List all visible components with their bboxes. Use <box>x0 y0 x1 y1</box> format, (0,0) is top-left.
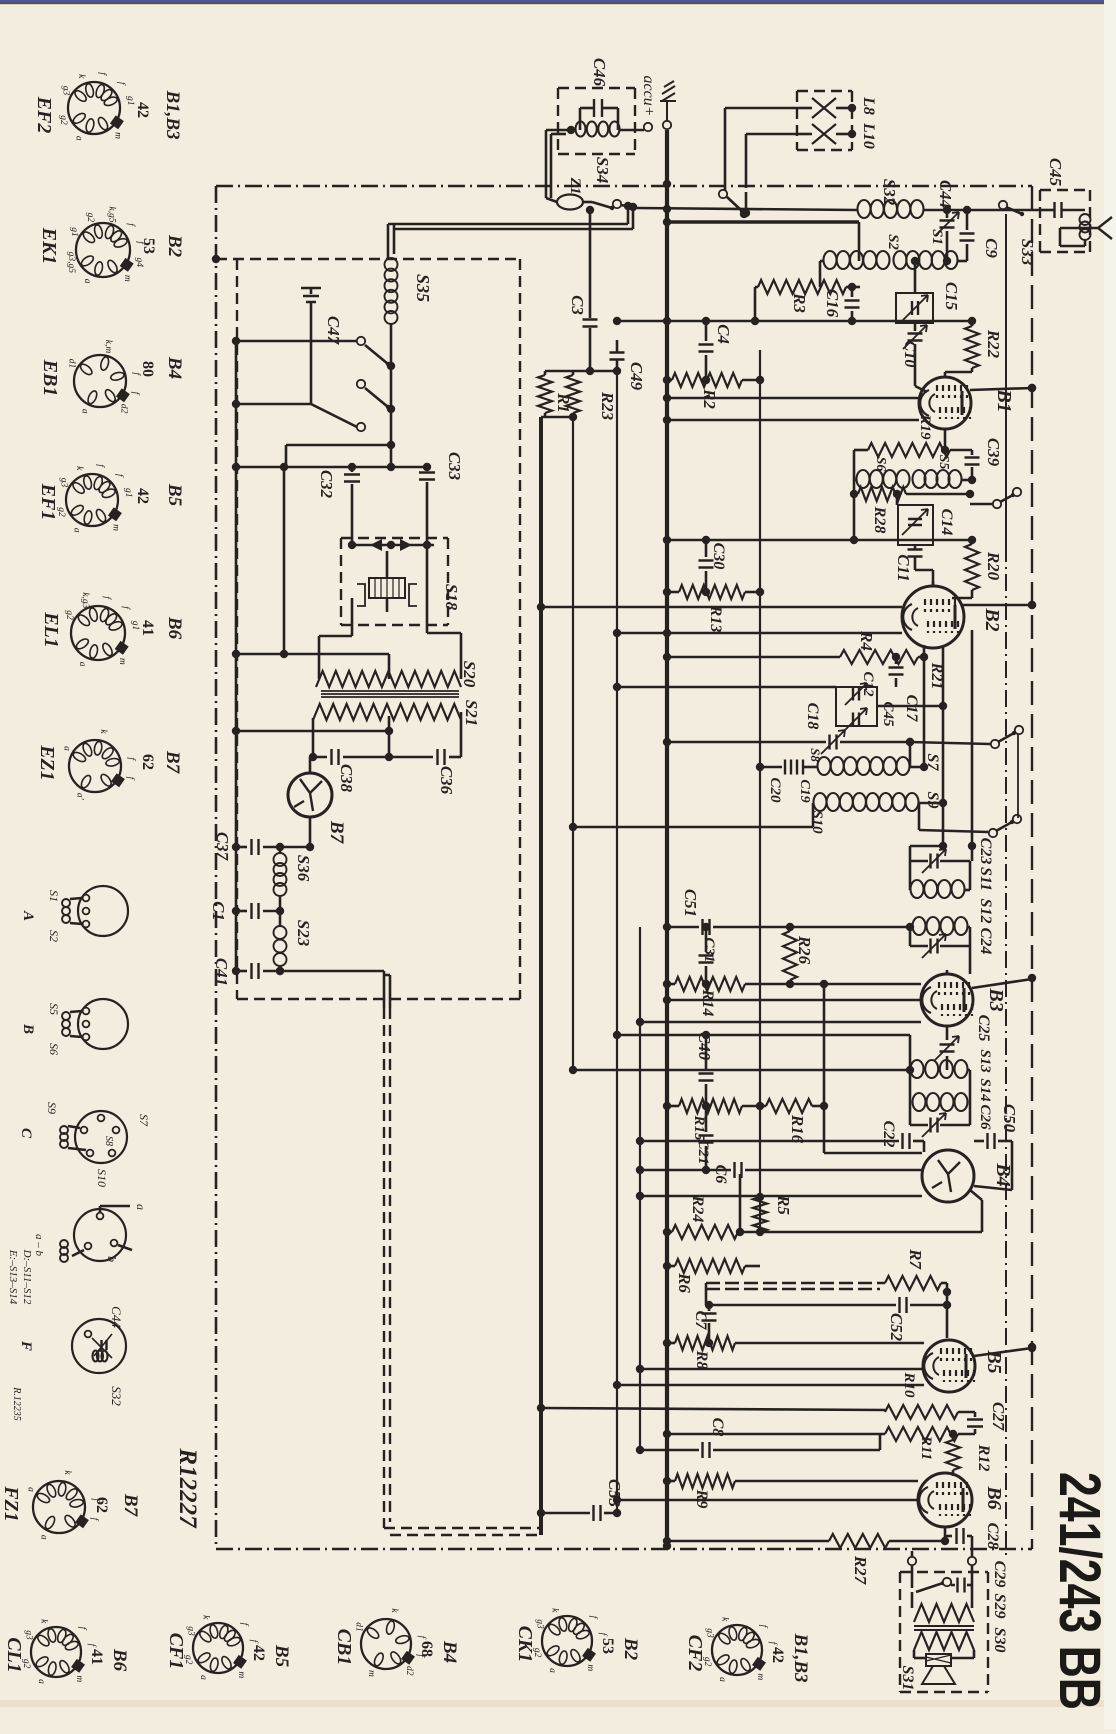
wire L10 to main wire <box>745 192 748 212</box>
svg-text:EF2: EF2 <box>33 96 55 134</box>
svg-text:S8: S8 <box>808 748 823 762</box>
svg-text:m: m <box>366 1670 376 1677</box>
svg-text:R22: R22 <box>984 329 1003 359</box>
wire HT feed top <box>667 220 859 223</box>
svg-text:C23: C23 <box>977 838 994 865</box>
svg-text:L8: L8 <box>860 96 877 115</box>
wire osc box to cathode <box>877 705 943 708</box>
svg-text:C15: C15 <box>942 282 961 311</box>
svg-text:S7: S7 <box>137 1114 151 1127</box>
resistor R28 <box>854 493 858 496</box>
svg-text:C40: C40 <box>695 1032 714 1061</box>
svg-text:S30: S30 <box>991 1628 1008 1653</box>
svg-text:EL1: EL1 <box>40 611 62 648</box>
transformer secondary <box>914 1632 974 1650</box>
wire main earth bus <box>539 417 543 1535</box>
svg-text:a: a <box>134 1204 148 1210</box>
tube socket FZ1 <box>33 1481 85 1533</box>
svg-text:g2: g2 <box>85 213 95 223</box>
wire bus x640 <box>639 927 641 1450</box>
svg-text:42: 42 <box>250 1645 267 1661</box>
svg-text:53: 53 <box>140 238 157 254</box>
svg-text:S21: S21 <box>462 700 481 726</box>
svg-text:S14: S14 <box>977 1078 993 1102</box>
svg-text:R5: R5 <box>774 1194 793 1215</box>
svg-text:B7: B7 <box>162 750 183 775</box>
trimmer C14 box <box>898 505 933 545</box>
svg-text:a: a <box>26 1487 36 1492</box>
trimmer C26 <box>909 1103 912 1125</box>
connector B <box>78 999 128 1049</box>
lamp L8 <box>812 98 836 118</box>
svg-text:R19: R19 <box>917 413 933 440</box>
svg-text:S6: S6 <box>873 457 888 472</box>
capacitor C49 <box>610 353 625 360</box>
svg-text:C37: C37 <box>213 832 232 862</box>
svg-text:R7: R7 <box>906 1248 925 1270</box>
svg-text:m: m <box>111 524 121 531</box>
connector F <box>72 1319 126 1373</box>
wire x824 link <box>823 984 826 1153</box>
transformer S31 primary <box>911 1592 914 1608</box>
coil S12 <box>909 927 912 946</box>
tube B2 <box>902 586 964 648</box>
trimmer C23 <box>910 860 928 863</box>
svg-text:41: 41 <box>88 1649 105 1665</box>
trimmer C24 <box>910 945 928 948</box>
svg-text:C31: C31 <box>701 937 717 962</box>
coil S10 <box>814 793 827 811</box>
svg-text:C45: C45 <box>880 701 896 727</box>
svg-text:S23: S23 <box>294 920 313 947</box>
svg-text:B2: B2 <box>981 607 1003 631</box>
svg-text:S36: S36 <box>294 855 313 882</box>
svg-text:68: 68 <box>418 1641 435 1657</box>
resistor R20 <box>965 544 979 590</box>
coil S36 <box>279 847 282 853</box>
svg-text:B5: B5 <box>164 483 185 507</box>
capacitor C37 <box>236 846 247 849</box>
wire switch bottom <box>286 444 391 447</box>
capacitor C31 <box>705 927 708 952</box>
svg-text:L10: L10 <box>860 122 877 149</box>
svg-text:C32: C32 <box>317 470 336 499</box>
wire B4 row <box>640 1195 922 1198</box>
svg-text:g2: g2 <box>64 610 74 620</box>
wire R1 R23 top <box>545 370 617 373</box>
wire L10 feed <box>746 133 800 136</box>
svg-text:a – b: a – b <box>33 1234 45 1257</box>
svg-text:C21: C21 <box>695 1139 711 1164</box>
wire S21 tap to bus <box>236 730 389 733</box>
svg-text:S12: S12 <box>977 899 994 924</box>
svg-text:C20: C20 <box>767 777 783 803</box>
svg-text:62: 62 <box>139 754 156 770</box>
resistor R19 <box>944 429 947 450</box>
svg-text:C12: C12 <box>860 671 876 697</box>
svg-text:S31: S31 <box>899 1666 916 1691</box>
tube socket CF2 <box>712 1625 762 1675</box>
connector D <box>74 1209 126 1261</box>
svg-text:S9: S9 <box>45 1102 59 1114</box>
wire B1 plate to rail <box>970 388 1032 390</box>
svg-text:m: m <box>122 275 132 282</box>
coil S11 <box>911 880 924 898</box>
capacitor C20 <box>760 766 782 769</box>
svg-text:C: C <box>18 1128 34 1139</box>
wire B3 plate to rail <box>972 979 1032 988</box>
capacitor C3 <box>589 210 592 318</box>
wire bus x236 <box>235 341 238 971</box>
wire shield drop <box>383 971 386 1008</box>
svg-text:m: m <box>236 1671 246 1678</box>
resistor R2 <box>667 379 672 382</box>
svg-text:C17: C17 <box>903 695 920 723</box>
svg-text:a: a <box>72 528 82 533</box>
svg-text:R23: R23 <box>598 391 617 421</box>
svg-text:C11: C11 <box>894 554 913 581</box>
switch contact osc range 1 <box>910 742 990 744</box>
coil S13 <box>911 1060 924 1078</box>
svg-text:B5: B5 <box>271 1644 292 1668</box>
svg-text:m: m <box>74 1675 84 1682</box>
capacitor C21 <box>705 1106 708 1132</box>
capacitor C11 <box>914 545 917 549</box>
wire B2 cathode down <box>923 645 926 767</box>
svg-text:R6: R6 <box>675 1272 694 1293</box>
wire AVC row <box>573 1069 910 1072</box>
capacitor C7 <box>708 1305 711 1311</box>
svg-text:S20: S20 <box>460 661 479 688</box>
tube socket EL1 <box>71 606 125 660</box>
svg-text:C19: C19 <box>797 779 812 802</box>
resistor R1 <box>538 375 552 413</box>
svg-text:CL1: CL1 <box>3 1637 25 1673</box>
svg-text:a: a <box>62 746 72 751</box>
capacitor C52 <box>705 1283 708 1305</box>
svg-text:S35: S35 <box>413 274 433 302</box>
trimmer C12 <box>836 687 877 726</box>
capacitor C22 <box>640 1140 899 1143</box>
wire B5 plate to rail <box>974 1348 1032 1356</box>
svg-text:B1,B3: B1,B3 <box>790 1632 811 1682</box>
svg-text:EF1: EF1 <box>37 483 59 521</box>
svg-text:C30: C30 <box>710 543 727 570</box>
resistor R23 <box>566 375 580 413</box>
svg-text:42: 42 <box>769 1647 786 1663</box>
svg-text:R20: R20 <box>984 551 1003 581</box>
resistor R14 <box>667 983 675 986</box>
svg-text:R28: R28 <box>871 506 888 534</box>
capacitor C46 <box>594 99 602 117</box>
svg-text:42: 42 <box>134 102 151 118</box>
capacitor C28 <box>945 1535 952 1538</box>
vibrator reed <box>386 551 389 578</box>
svg-text:C36: C36 <box>437 766 456 795</box>
capacitor C36 <box>438 749 445 765</box>
svg-text:41: 41 <box>139 620 156 636</box>
svg-text:a: a <box>82 279 92 284</box>
trimmer C44 <box>946 210 949 218</box>
svg-text:C1: C1 <box>209 901 228 921</box>
terminal accu bus top <box>663 121 671 129</box>
svg-text:S10: S10 <box>809 810 825 834</box>
svg-text:C9: C9 <box>982 238 1001 258</box>
svg-text:C44: C44 <box>109 1306 124 1328</box>
svg-text:80: 80 <box>139 361 156 377</box>
svg-text:D:–S11–S12: D:–S11–S12 <box>21 1249 33 1305</box>
svg-text:m: m <box>755 1673 765 1680</box>
svg-text:k,g3: k,g3 <box>80 592 90 608</box>
transformer S20 S21 core <box>321 690 459 692</box>
svg-text:S18: S18 <box>442 584 461 611</box>
svg-text:R9: R9 <box>693 1489 710 1509</box>
wire B5 rows <box>640 1368 924 1371</box>
svg-text:S1: S1 <box>47 890 61 902</box>
svg-text:R10: R10 <box>901 1371 917 1398</box>
svg-text:CB1: CB1 <box>333 1629 355 1666</box>
svg-text:C50: C50 <box>1000 1104 1019 1133</box>
svg-text:B4: B4 <box>164 356 185 379</box>
svg-text:R26: R26 <box>795 935 814 965</box>
switch contact antenna <box>999 201 1007 209</box>
speaker S31 <box>926 1654 951 1666</box>
capacitor C46 box <box>558 87 635 89</box>
inductor L8 L10 dashed box <box>797 90 852 92</box>
svg-text:C28: C28 <box>984 1523 1001 1550</box>
svg-text:a: a <box>80 409 90 414</box>
capacitor C8 <box>640 1449 699 1452</box>
svg-text:C26: C26 <box>977 1104 993 1130</box>
tube socket CL1 <box>31 1627 81 1677</box>
svg-text:S5: S5 <box>936 455 951 470</box>
lamp Z1 <box>557 195 583 210</box>
coil S14 <box>909 1070 912 1103</box>
svg-text:B7: B7 <box>326 820 347 845</box>
coil S6 <box>857 470 870 488</box>
wire accu battery bus <box>665 130 669 1546</box>
tube socket EB1 <box>74 355 126 407</box>
svg-text:C49: C49 <box>627 362 646 391</box>
antenna arrow <box>1060 217 1112 239</box>
tube B5 <box>923 1340 975 1392</box>
svg-text:C41: C41 <box>212 958 231 986</box>
capacitor C33 <box>426 467 429 470</box>
capacitor C29 <box>951 1584 955 1587</box>
svg-text:g4: g4 <box>134 258 144 268</box>
wire det row <box>541 1408 885 1410</box>
switch contact output 1 <box>908 1557 916 1565</box>
wire C6 to R24 row <box>739 1174 742 1232</box>
svg-text:C18: C18 <box>804 703 821 730</box>
svg-text:B: B <box>20 1023 36 1034</box>
svg-text:B3: B3 <box>985 987 1007 1011</box>
svg-text:C46: C46 <box>590 58 609 87</box>
svg-text:F: F <box>18 1340 34 1351</box>
wire bus x617 <box>616 371 618 1513</box>
wire S20 right feed <box>426 482 429 633</box>
terminal accu+ <box>644 123 652 131</box>
svg-text:S33: S33 <box>1018 239 1037 266</box>
svg-text:R24: R24 <box>689 1195 706 1223</box>
switch contact osc range 2 <box>919 830 988 832</box>
svg-text:R11: R11 <box>918 1435 934 1460</box>
resistor R13 <box>667 591 679 594</box>
svg-text:R16: R16 <box>788 1114 807 1144</box>
svg-text:R15: R15 <box>691 1114 707 1141</box>
svg-text:EK1: EK1 <box>38 227 60 265</box>
wire S35 drop <box>390 324 393 445</box>
tube socket EF2 <box>68 82 120 134</box>
svg-text:a: a <box>547 1668 557 1673</box>
svg-text:B6: B6 <box>983 1485 1005 1509</box>
svg-text:R12227: R12227 <box>174 1447 201 1529</box>
wire to vibrator caps <box>286 466 427 469</box>
svg-text:CF1: CF1 <box>165 1633 187 1670</box>
wire B1 grid rows <box>667 397 919 400</box>
svg-text:C38: C38 <box>337 764 356 793</box>
svg-text:C3: C3 <box>568 295 587 315</box>
svg-text:C39: C39 <box>984 438 1003 467</box>
resistor R17 <box>885 1405 958 1419</box>
capacitor C9 <box>966 210 969 230</box>
svg-text:m: m <box>117 658 127 665</box>
coil S33 <box>1080 214 1091 225</box>
capacitor C27 <box>974 1412 977 1417</box>
svg-text:R3: R3 <box>790 292 809 313</box>
svg-text:accu+: accu+ <box>640 76 657 117</box>
coil S1 <box>894 251 907 269</box>
tube B1 <box>919 377 971 429</box>
svg-text:C25: C25 <box>975 1015 992 1042</box>
transformer S20 winding <box>316 671 461 687</box>
resistor R16 <box>766 1099 812 1113</box>
tube socket CF1 <box>193 1623 243 1673</box>
wire B6 cathode <box>944 1527 947 1541</box>
svg-text:241/243 BB: 241/243 BB <box>1047 1472 1112 1710</box>
connector C <box>75 1111 127 1163</box>
svg-text:d2: d2 <box>119 404 129 414</box>
capacitor C53 <box>541 1512 590 1515</box>
transformer S21 winding <box>313 704 461 720</box>
wire screen row <box>667 539 972 542</box>
switch contact S35a <box>236 340 357 343</box>
svg-text:B5: B5 <box>983 1349 1005 1373</box>
svg-text:S2: S2 <box>885 234 901 250</box>
resistor R3 <box>755 286 758 289</box>
resistor R8 <box>667 1342 675 1345</box>
wire bus x573 <box>572 417 574 1070</box>
tube B3 <box>921 974 973 1026</box>
svg-text:C51: C51 <box>681 889 700 917</box>
svg-text:g1: g1 <box>69 227 79 237</box>
capacitor C4 <box>705 321 708 341</box>
svg-text:CF2: CF2 <box>684 1635 706 1672</box>
svg-text:S13: S13 <box>977 1049 993 1073</box>
tube socket CB1 <box>361 1619 411 1669</box>
svg-text:C22: C22 <box>880 1121 897 1148</box>
svg-text:C33: C33 <box>445 452 464 481</box>
trimmer C15 box <box>896 293 933 323</box>
svg-text:d2: d2 <box>404 1666 414 1676</box>
wire R1 R23 bottom <box>541 416 573 419</box>
svg-text:B7: B7 <box>120 1493 141 1518</box>
switch lever dial lamp <box>583 201 592 204</box>
svg-text:S9: S9 <box>924 792 941 809</box>
wire IF1 top <box>910 845 943 848</box>
resistor R7 AVC <box>706 1282 885 1284</box>
tube socket EF1 <box>66 474 118 526</box>
capacitor C39 <box>971 450 974 455</box>
switch contact rf range <box>970 503 993 506</box>
wire bus x760 <box>759 350 761 1232</box>
svg-text:R21: R21 <box>928 662 945 690</box>
wire to lamp <box>546 129 571 132</box>
svg-text:B1,B3: B1,B3 <box>162 89 183 139</box>
switch contact S35c <box>357 423 365 431</box>
capacitor C47 battery <box>301 287 321 290</box>
capacitor C38 <box>310 756 327 759</box>
svg-text:C4: C4 <box>714 324 733 344</box>
switch S35 coil <box>385 258 398 271</box>
svg-text:S32: S32 <box>880 179 899 206</box>
svg-text:a: a <box>39 1535 49 1540</box>
resistor R9 <box>667 1480 675 1483</box>
svg-text:m: m <box>585 1664 595 1671</box>
resistor R26 <box>783 931 797 980</box>
svg-text:S34: S34 <box>593 157 612 183</box>
svg-text:S7: S7 <box>924 754 941 772</box>
resistor R5 <box>753 1197 767 1232</box>
svg-text:R.12235: R.12235 <box>11 1386 22 1421</box>
vibrator S18 dashed box <box>341 537 448 539</box>
switch contact S35b <box>357 380 365 388</box>
svg-text:A: A <box>20 910 36 921</box>
svg-text:S1: S1 <box>929 229 945 245</box>
resistor R27 <box>667 1540 829 1543</box>
svg-text:Z1: Z1 <box>567 177 583 195</box>
wire B6 row <box>617 1499 918 1502</box>
svg-text:B6: B6 <box>109 1648 130 1672</box>
svg-text:a: a <box>36 1679 46 1684</box>
capacitor C19 <box>797 760 803 775</box>
svg-text:d1: d1 <box>67 359 77 369</box>
svg-text:a': a' <box>75 793 85 801</box>
capacitor C45 <box>1055 202 1062 218</box>
tube B6 <box>918 1473 972 1527</box>
svg-text:g3: g3 <box>61 86 71 96</box>
svg-text:R14: R14 <box>699 989 716 1017</box>
svg-text:R8: R8 <box>693 1350 710 1370</box>
wire IF2 top <box>617 1034 910 1037</box>
connector A <box>78 886 128 936</box>
outer dash-dot frame <box>216 185 1032 188</box>
svg-text:C16: C16 <box>823 289 842 318</box>
svg-text:g1: g1 <box>125 96 135 106</box>
svg-text:k,m: k,m <box>103 340 113 354</box>
svg-text:C47: C47 <box>324 316 343 346</box>
wire S35 twin feed <box>387 224 390 258</box>
svg-text:C8: C8 <box>709 1418 726 1437</box>
svg-text:g1: g1 <box>123 488 133 498</box>
transformer core <box>914 1625 974 1627</box>
resistor R12 <box>952 1434 955 1440</box>
svg-text:S10: S10 <box>95 1169 109 1187</box>
svg-text:a: a <box>198 1675 208 1680</box>
lamp L10 <box>812 124 836 144</box>
coil S34 <box>576 122 586 137</box>
wire C47 top link <box>310 295 313 298</box>
